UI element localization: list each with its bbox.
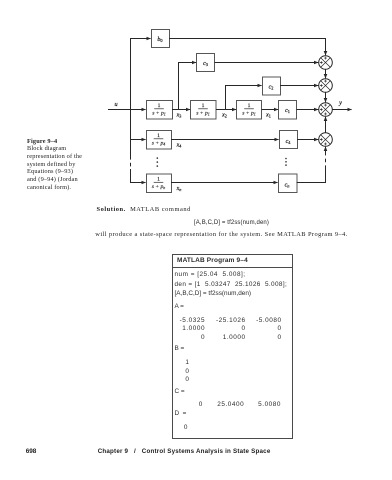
svg-text:c4: c4: [286, 139, 292, 145]
summer S3: [319, 103, 333, 117]
block c1: [279, 101, 297, 120]
svg-text:c1: c1: [285, 108, 290, 114]
wire: summer S1 to summer S2: [325, 69, 327, 78]
wire: branch x2 up into c2: [226, 86, 262, 110]
svg-text:s + p4: s + p4: [152, 141, 166, 147]
svg-text:x3: x3: [176, 112, 182, 118]
wire: vertical distribution line into 1/(s+pn): [131, 169, 146, 183]
wire: c2 to summer S2: [280, 85, 318, 87]
wire: block G1 to block G2: [172, 109, 190, 111]
svg-text:s + p1: s + p1: [152, 111, 166, 117]
block b0: [152, 30, 170, 48]
block c4: [280, 131, 298, 149]
svg-text:1: 1: [158, 103, 161, 109]
node xn label: [176, 186, 182, 192]
block G1: 1/(s+p1): [147, 101, 173, 120]
footer: [26, 448, 37, 455]
node x2 label: [221, 112, 227, 118]
svg-text:1: 1: [157, 177, 160, 183]
node ellipsis dots left: [157, 157, 159, 167]
node x3 label: [176, 112, 182, 118]
svg-text:c3: c3: [203, 61, 208, 67]
wire: c3 to summer S1: [215, 62, 319, 64]
block Gn: 1/(s+pn): [147, 174, 172, 193]
wire: cn output to summer S4 dashed riser: [297, 147, 326, 183]
summer S2: [319, 79, 333, 93]
wire: summer S4 to summer S3: [325, 117, 327, 133]
svg-text:x1: x1: [265, 112, 271, 118]
wire: vertical distribution line down to 1/(s+p4): [131, 110, 146, 140]
block diagram SVG: [0, 0, 392, 206]
wire: vertical distribution line dashed segment: [130, 140, 132, 170]
node x1 label: [265, 112, 271, 118]
figure caption: [27, 138, 82, 192]
block G3: 1/(s+p1): [237, 101, 262, 120]
block cn: [279, 174, 298, 193]
wire: branch x3 up into c3: [179, 63, 197, 110]
svg-text:b0: b0: [157, 37, 162, 43]
node y label: [338, 100, 342, 107]
wire: b0 output to summer S1: [169, 39, 326, 56]
svg-text:s + p1: s + p1: [196, 111, 210, 117]
svg-text:1: 1: [248, 103, 251, 109]
node u label: [114, 101, 117, 108]
svg-text:c2: c2: [269, 84, 274, 90]
wire: vertical distribution line up to b0: [131, 39, 151, 110]
MATLAB program box: [172, 254, 293, 439]
svg-text:1: 1: [202, 103, 205, 109]
wire: block G4 to c4: [171, 139, 279, 141]
svg-text:s + p1: s + p1: [242, 111, 256, 117]
svg-text:s + pn: s + pn: [152, 184, 166, 190]
wire: block G3 to c1: [262, 109, 279, 111]
svg-text:cn: cn: [285, 182, 290, 188]
svg-text:xn: xn: [176, 186, 182, 192]
svg-text:1: 1: [157, 133, 160, 139]
solution paragraph: [97, 206, 191, 213]
svg-text:x2: x2: [221, 112, 227, 118]
wire: summer S2 to summer S3: [325, 92, 327, 102]
block c3: [197, 54, 215, 72]
wire: input u line into block 1/(s+p1): [108, 109, 146, 111]
node ellipsis dots right: [285, 158, 287, 166]
wire: block Gn to cn: [171, 182, 278, 184]
node x4 label: [176, 142, 183, 148]
block G4: 1/(s+p4): [147, 131, 172, 150]
wire: c1 to summer S3: [297, 109, 319, 111]
summer S1: [319, 56, 333, 70]
wire: output y from summer S3: [332, 109, 351, 111]
svg-text:x4: x4: [176, 142, 183, 148]
wire: c4 to summer S4: [297, 139, 318, 141]
svg-text:y: y: [338, 100, 342, 107]
wire: block G2 to block G3: [216, 109, 236, 111]
block c2: [263, 77, 281, 95]
block G2: 1/(s+p1): [191, 101, 217, 120]
svg-text:u: u: [114, 101, 117, 108]
summer S4: [319, 133, 333, 147]
